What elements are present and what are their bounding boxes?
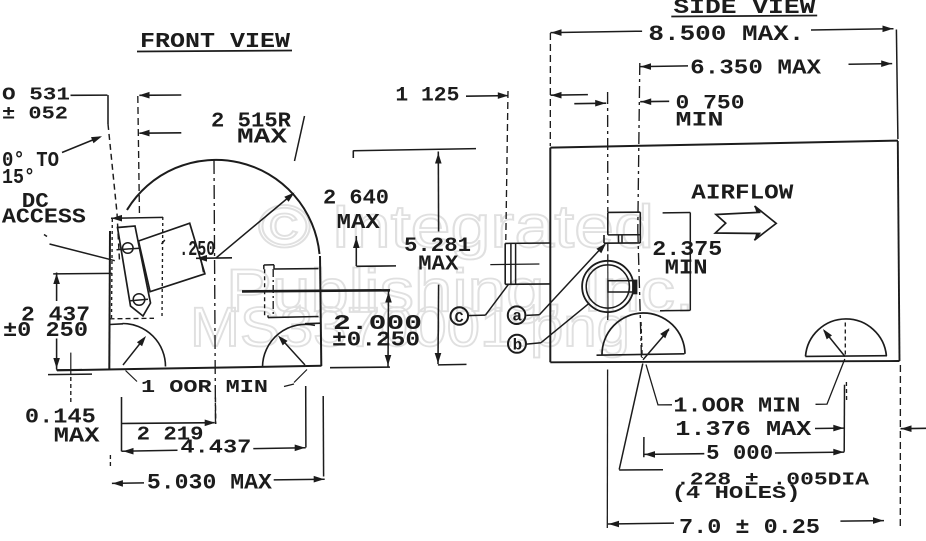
svg-text:15°: 15° (2, 167, 35, 190)
svg-text:1 OOR MIN: 1 OOR MIN (141, 378, 268, 398)
dim 2.437 +/-0.250 (56, 273, 58, 302)
svg-text:MAX: MAX (418, 254, 458, 277)
svg-text:(4 HOLES): (4 HOLES) (672, 484, 801, 504)
7.0 dim left extension (606, 370, 608, 529)
svg-text:MIN: MIN (665, 258, 708, 281)
leader to 1 00R MIN right (294, 370, 307, 383)
dim 0.145 MAX (70, 353, 72, 374)
dim 0.750 lines (574, 102, 606, 105)
fan hub slot (608, 281, 633, 292)
dim .250 (162, 240, 165, 244)
dim 2.000 +/-0.250 (387, 291, 390, 367)
dim 4.437 (122, 450, 178, 451)
top datum line (353, 149, 476, 151)
callout circle b (508, 335, 526, 353)
callout circle a (508, 306, 526, 324)
svg-text:ACCESS: ACCESS (2, 207, 86, 230)
closed door bottom dashed (110, 317, 155, 320)
dim 5.030 MAX (112, 482, 144, 485)
svg-text:a: a (512, 308, 522, 326)
svg-text:8.500 MAX.: 8.500 MAX. (648, 22, 804, 47)
leader 0-15 deg (62, 137, 100, 153)
airflow arrow (715, 206, 776, 240)
dome centerline (214, 160, 216, 424)
svg-text:MAX: MAX (237, 127, 288, 150)
svg-text:MIN: MIN (676, 110, 724, 133)
leader .228 holes (619, 364, 643, 470)
door hinge strip (118, 226, 151, 316)
side connector (505, 242, 550, 244)
front left foot radius arrow (123, 339, 144, 366)
leader 2.515R (295, 116, 305, 161)
callout circle C (451, 307, 469, 325)
leader 5.281 to connector (490, 263, 539, 266)
door swing dashed line (108, 124, 120, 261)
svg-text:MAX: MAX (337, 212, 380, 235)
svg-text:1.376 MAX: 1.376 MAX (675, 419, 811, 442)
dim 5.281 lines (437, 152, 439, 232)
side right foot radius arrow (824, 331, 845, 357)
dim 5.000 lines (644, 453, 704, 456)
front right foot cutout 1.00R (263, 324, 316, 367)
closed door top line 0.531 arrow (111, 216, 163, 219)
front body left edge (108, 231, 111, 369)
svg-text:±0 250: ±0 250 (3, 320, 88, 343)
front body right edge (320, 256, 321, 366)
dim 7.0 lines (608, 522, 674, 525)
fan circle inner (586, 265, 629, 308)
svg-text:6.350 MAX: 6.350 MAX (690, 58, 821, 81)
dim 2.640 line (355, 236, 357, 266)
hinge screw top (123, 243, 134, 254)
bracket 2.375 (663, 212, 691, 214)
svg-text:C: C (455, 310, 464, 327)
svg-text:± 052: ± 052 (2, 105, 68, 125)
svg-text:MAX: MAX (54, 426, 100, 449)
closed door left dashed (111, 219, 114, 320)
front left foot cutout 1.00R (123, 324, 166, 367)
svg-text:1 125: 1 125 (395, 85, 459, 108)
dim 1.376 lines (815, 427, 844, 429)
side center foot cutout (597, 354, 685, 355)
svg-text:O 531: O 531 (2, 86, 70, 106)
dome radius line (216, 195, 292, 259)
svg-text:1.OOR MIN: 1.OOR MIN (673, 396, 800, 419)
right edge extension dashed (899, 365, 901, 528)
fan housing (608, 211, 641, 213)
svg-text:4.437: 4.437 (180, 437, 251, 459)
side center foot radius arrow (643, 330, 669, 360)
fan circle outer (582, 261, 633, 312)
closed door right dashed (161, 217, 164, 318)
svg-text:7.0 ± 0.25: 7.0 ± 0.25 (679, 517, 820, 536)
front right foot radius arrow (280, 338, 305, 366)
leader to 1 00R MIN left (126, 371, 138, 382)
svg-text:b: b (513, 337, 523, 355)
hinge screw bottom (133, 294, 145, 306)
dc access door open (139, 223, 205, 292)
dim 2.219 (121, 397, 123, 451)
svg-text:5.030 MAX: 5.030 MAX (147, 471, 273, 496)
leader DC ACCESS (44, 235, 47, 237)
side body outline (550, 141, 898, 148)
dim 1.125 lines (466, 95, 508, 98)
thick mid line (242, 290, 390, 291)
centerline door pivot (138, 96, 140, 217)
leader 1.00R left (646, 365, 672, 405)
fan centerline vertical (607, 92, 609, 212)
svg-text:2 640: 2 640 (323, 188, 389, 211)
front connector (264, 264, 274, 266)
svg-text:5 000: 5 000 (706, 443, 773, 466)
front body bottom edge (57, 366, 322, 371)
front body dome arc 2.515R (127, 160, 320, 254)
hole centerline vertical (638, 63, 640, 230)
svg-text:±0.250: ±0.250 (332, 330, 420, 353)
side right foot cutout (806, 319, 887, 356)
leader 1.00R right (816, 359, 845, 404)
dim 8.500 lines (550, 31, 642, 32)
dim 6.350 lines (640, 65, 688, 68)
svg-text:AIRFLOW: AIRFLOW (691, 183, 793, 206)
